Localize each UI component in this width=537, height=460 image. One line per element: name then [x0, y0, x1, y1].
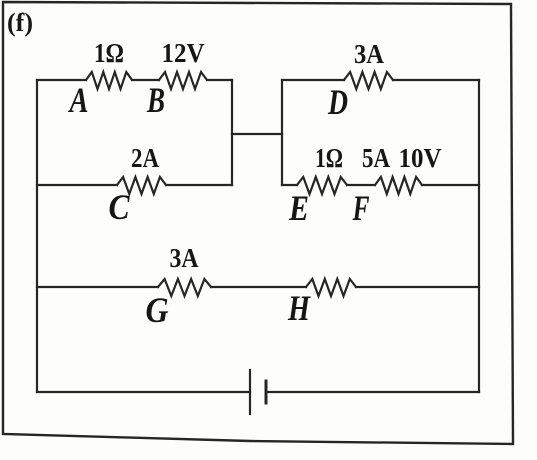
wire left vertical — [36, 80, 38, 392]
wire bottom right — [266, 391, 479, 393]
svg-text:B: B — [146, 80, 165, 120]
svg-text:G: G — [146, 290, 169, 330]
wire EF row right — [422, 184, 479, 186]
battery long plate — [249, 370, 251, 414]
svg-text:F: F — [352, 188, 370, 228]
wire GH row middle — [211, 286, 306, 288]
resistor F — [375, 177, 422, 194]
wire top-left c — [207, 79, 232, 81]
svg-text:3A: 3A — [354, 39, 384, 69]
wire bottom left — [37, 391, 250, 393]
svg-text:C: C — [109, 187, 131, 227]
wire bridge between loops — [232, 133, 282, 135]
battery short plate — [265, 381, 268, 403]
svg-text:D: D — [327, 82, 348, 122]
resistor H — [306, 279, 356, 296]
svg-text:1Ω: 1Ω — [94, 38, 124, 68]
wire GH row right — [356, 286, 479, 288]
svg-text:H: H — [287, 288, 311, 328]
resistor D — [344, 72, 393, 89]
resistor C — [117, 177, 166, 194]
resistor A — [86, 72, 132, 89]
resistor E — [297, 177, 347, 194]
wire C row left — [37, 184, 117, 186]
wire top-right a — [282, 79, 344, 81]
svg-text:E: E — [288, 188, 309, 228]
svg-text:2A: 2A — [131, 143, 159, 173]
svg-text:A: A — [68, 80, 89, 120]
wire EF row left — [282, 184, 297, 186]
wire GH row left — [37, 286, 158, 288]
svg-text:1Ω: 1Ω — [315, 143, 343, 173]
wire top-left a — [37, 79, 86, 81]
svg-text:3A: 3A — [170, 243, 199, 273]
wire EF row middle — [347, 184, 375, 186]
resistor B — [159, 72, 207, 89]
svg-text:(f): (f) — [7, 8, 33, 37]
wire middle-right vertical — [281, 80, 283, 185]
resistor G — [158, 279, 211, 296]
wire top-right b — [393, 79, 479, 81]
wire middle-left vertical — [231, 80, 233, 185]
svg-text:5A: 5A — [362, 143, 390, 173]
wire C row right — [166, 184, 232, 186]
wire right vertical — [478, 80, 480, 392]
svg-text:10V: 10V — [399, 143, 442, 173]
svg-text:12V: 12V — [162, 38, 205, 68]
wire top-left b — [132, 79, 159, 81]
